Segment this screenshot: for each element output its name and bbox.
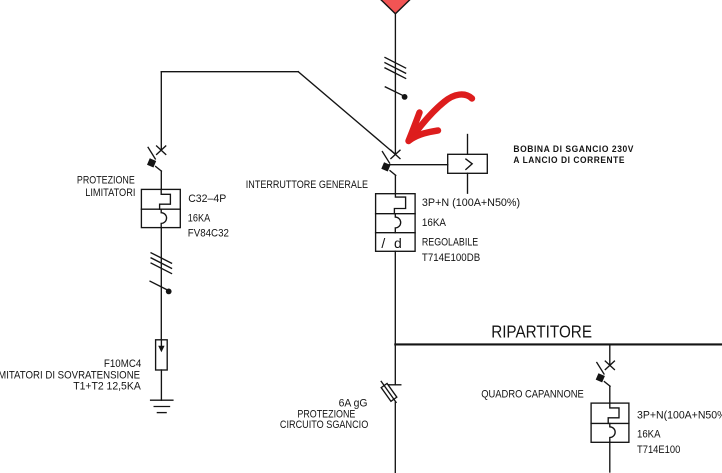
svg-text:FV84C32: FV84C32 (188, 227, 229, 239)
svg-text:T714E100: T714E100 (637, 444, 680, 456)
wire: left branch horizontal (161, 71, 298, 73)
magnetic release symbol (161, 209, 166, 227)
svg-text:REGOLABILE: REGOLABILE (422, 237, 478, 249)
magnetic release symbol (610, 423, 615, 442)
surge arrester F10MC4 (156, 340, 168, 370)
svg-text:3P+N (100A+N50%): 3P+N (100A+N50%) (422, 197, 520, 209)
svg-text:BOBINA DI SGANCIO 230V: BOBINA DI SGANCIO 230V (513, 144, 634, 154)
thermal release symbol (160, 189, 171, 209)
breaker contact: quadro capannone (596, 361, 615, 386)
wire: branch drop from busbar (609, 344, 611, 365)
wire: supply drop to main breaker (394, 14, 396, 155)
breaker contact: left limiter (147, 146, 166, 171)
fuse-switch 6A gG (381, 381, 401, 402)
tap with dot on supply (385, 87, 407, 100)
busbar RIPARTITORE (395, 343, 722, 345)
wire: breaker to main breaker unit (394, 175, 396, 193)
red annotation arrow (409, 94, 473, 141)
svg-text:/: / (381, 235, 385, 251)
magnetic release symbol (395, 214, 400, 233)
ground (151, 400, 173, 412)
conductor count slashes (3) on limiter branch (151, 253, 171, 274)
svg-text:A LANCIO DI CORRENTE: A LANCIO DI CORRENTE (513, 155, 625, 165)
wire: main breaker unit to busbar and fuse (394, 251, 396, 384)
svg-text:PROTEZIONE: PROTEZIONE (77, 175, 135, 187)
wire: limiter contact to C32 box (160, 171, 162, 189)
wire: left branch diagonal to junction (298, 72, 395, 154)
conductor count slashes (3) on supply (385, 58, 406, 79)
svg-text:QUADRO CAPANNONE: QUADRO CAPANNONE (481, 389, 584, 401)
svg-text:16KA: 16KA (422, 217, 447, 229)
wire: C32 box to SPD (160, 228, 162, 340)
branch breaker box (T714E100) (591, 403, 629, 442)
svg-text:3P+N(100A+N50%): 3P+N(100A+N50%) (637, 409, 722, 421)
svg-text:T714E100DB: T714E100DB (422, 252, 480, 264)
breaker contact: main (junction X) (381, 150, 400, 175)
shunt trip coil U1 (448, 135, 488, 194)
svg-text:RIPARTITORE: RIPARTITORE (491, 321, 592, 341)
svg-text:CIRCUITO SGANCIO: CIRCUITO SGANCIO (280, 419, 369, 431)
svg-text:16KA: 16KA (637, 428, 661, 440)
wire: left branch vertical drop (160, 72, 162, 151)
limiter breaker box (C32-4P) (141, 189, 180, 227)
tap with dot on limiter branch (150, 281, 172, 294)
main breaker unit box QF1 (T714E100DB) (376, 194, 416, 252)
svg-text:C32–4P: C32–4P (188, 193, 226, 205)
trip linkage wire to shunt coil (389, 164, 447, 166)
wire: contact to T714E100 box (609, 386, 611, 403)
supply feeder triangle (377, 0, 415, 14)
thermal release symbol (608, 403, 619, 423)
svg-text:INTERRUTTORE GENERALE: INTERRUTTORE GENERALE (246, 179, 368, 191)
wire: fuse to bottom edge (394, 402, 396, 473)
svg-text:T1+T2 12,5KA: T1+T2 12,5KA (73, 381, 141, 393)
svg-text:F10MC4: F10MC4 (104, 358, 141, 370)
wire: SPD to ground (160, 370, 162, 400)
wire: box to bottom (609, 442, 611, 472)
thermal release symbol (394, 194, 405, 214)
svg-text:16KA: 16KA (188, 212, 211, 224)
svg-text:LIMITATORI: LIMITATORI (85, 187, 135, 199)
svg-text:d: d (394, 235, 402, 251)
